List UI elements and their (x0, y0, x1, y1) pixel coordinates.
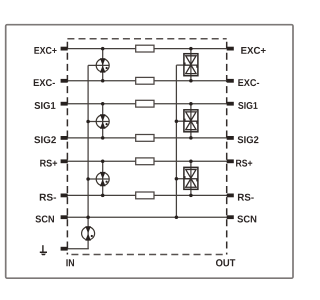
gas discharge tube F1 (96, 58, 109, 72)
label RS- right (238, 194, 254, 201)
junction dots TVS bus (175, 119, 179, 219)
wire EXC+ row (68, 48, 228, 50)
terminal RS+ left (61, 159, 68, 163)
ground bus stub to GDT F3 (electrode line) (88, 178, 109, 180)
terminal EXC+ right (227, 47, 234, 51)
label SIG2 right (238, 136, 259, 143)
resistor R1 (136, 45, 154, 52)
suppressor diode D3 (184, 167, 198, 189)
resistor R2 (136, 77, 154, 84)
terminal SCN left (61, 215, 68, 219)
GDT F3 branch wire RS+ to RS- (102, 161, 104, 195)
TVS bus stub to suppressor D2 (176, 120, 191, 122)
label SCN left (35, 215, 54, 222)
gas discharge tube F3 (96, 172, 109, 186)
wire RS+ row (68, 160, 228, 162)
TVS D2 branch wire SIG1 to SIG2 (190, 104, 192, 138)
label SIG1 left (34, 102, 55, 109)
TVS D3 branch wire RS+ to RS- (190, 161, 192, 195)
resistor R6 (136, 192, 154, 199)
label EXC+ left (34, 47, 56, 54)
junction dots TVS column (189, 47, 193, 197)
TVS bus stub to suppressor D3 (176, 178, 191, 180)
label SCN right (237, 215, 256, 222)
ground bus stub to GDT F1 (electrode line) (88, 64, 109, 66)
wire SCN row (68, 216, 228, 218)
suppressor diode D1 (184, 54, 198, 76)
label RS+ right (236, 160, 252, 167)
label OUT (216, 259, 235, 266)
label EXC- right (238, 79, 259, 86)
label RS- left (40, 194, 56, 201)
resistor R4 (136, 135, 154, 142)
GDT F1 branch wire EXC+ to EXC- (102, 49, 104, 81)
wire EXC- row (68, 80, 228, 82)
ground bus vertical (87, 65, 89, 248)
ground bus stub to GDT F2 (electrode line) (88, 121, 109, 123)
outer panel border (6, 25, 293, 279)
junction dots ground bus (86, 120, 90, 219)
junction dots GDT column (101, 47, 105, 197)
label SIG1 right (238, 102, 257, 109)
wire SIG1 row (68, 103, 228, 105)
wire ground row to terminal (68, 248, 89, 250)
ground symbol (40, 245, 47, 255)
GDT F2 branch wire SIG1 to SIG2 (102, 104, 104, 138)
TVS bus stub to suppressor D1 (176, 64, 191, 66)
terminal EXC- right (227, 79, 234, 83)
terminal ground left (61, 247, 68, 251)
gas discharge tube F4 (to ground) (82, 226, 95, 240)
terminal RS- right (227, 194, 234, 198)
resistor R3 (136, 100, 154, 107)
terminal EXC- left (61, 79, 68, 83)
terminal SIG1 left (61, 102, 68, 106)
terminal SIG2 right (227, 136, 234, 140)
terminal EXC+ left (61, 47, 68, 51)
protective device dashed outline box : bottom edge (67, 254, 226, 256)
terminal SIG1 right (227, 102, 234, 106)
protective device dashed outline box : left edge (66, 39, 68, 255)
wire SIG2 row (68, 137, 228, 139)
protective device dashed outline box : right edge (226, 39, 228, 255)
TVS common bus vertical (175, 65, 177, 217)
label EXC- left (34, 79, 55, 86)
terminal SIG2 left (61, 136, 68, 140)
label RS+ left (40, 160, 57, 167)
terminal SCN right (227, 215, 234, 219)
label IN (66, 259, 74, 266)
gas discharge tube F2 (96, 114, 109, 128)
label EXC+ right (241, 47, 265, 54)
suppressor diode D2 (184, 110, 198, 132)
TVS D1 branch wire EXC+ to EXC- (190, 49, 192, 81)
wire RS- row (68, 194, 228, 196)
label SIG2 left (34, 136, 56, 143)
resistor R5 (136, 158, 154, 165)
terminal RS- left (61, 194, 68, 198)
terminal RS+ right (227, 159, 234, 163)
protective device dashed outline box : top edge (67, 38, 226, 40)
